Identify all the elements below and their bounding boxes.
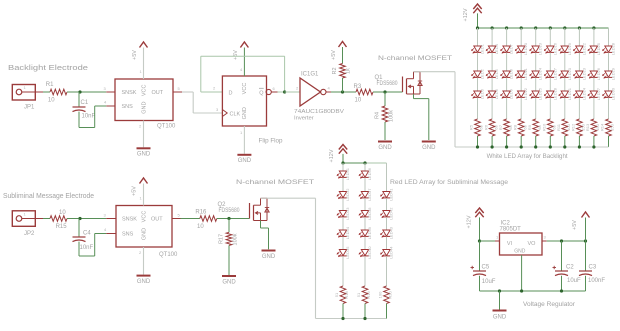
node junction: [534, 26, 537, 29]
wire: [386, 163, 388, 192]
svg-text:10uF: 10uF: [567, 278, 581, 284]
node junction: [592, 26, 595, 29]
wire: [342, 198, 344, 210]
LED LED21: [559, 87, 572, 100]
wire: [578, 28, 580, 46]
wire: [364, 198, 366, 210]
svg-text:10nF: 10nF: [82, 114, 96, 120]
svg-text:LED12: LED12: [523, 87, 528, 100]
svg-text:LED44: LED44: [389, 246, 394, 259]
svg-text:CLK: CLK: [230, 111, 241, 117]
svg-text:LED22: LED22: [581, 42, 586, 55]
svg-text:GND: GND: [238, 158, 252, 164]
pin 3 VO stub: [542, 235, 547, 242]
wire: [79, 106, 106, 128]
pin 5 OUT stub: [173, 86, 182, 92]
power +12V: [329, 145, 347, 163]
svg-text:QT100: QT100: [159, 252, 178, 258]
svg-text:GND: GND: [137, 279, 151, 285]
wire: [491, 136, 493, 147]
svg-text:FDS5680: FDS5680: [219, 208, 241, 214]
power +5V: [331, 42, 347, 60]
svg-text:VO: VO: [528, 241, 537, 247]
wire bottom rail: [480, 290, 586, 292]
resistor R9: [527, 119, 542, 136]
wire: [520, 78, 522, 91]
wire: [578, 78, 580, 91]
LED LED10: [515, 42, 528, 55]
ground: [493, 311, 507, 321]
wire: [477, 28, 479, 46]
label Voltage Regulator: [523, 301, 576, 308]
ground: [237, 155, 251, 164]
LED LED5: [486, 68, 499, 79]
wire: [593, 136, 595, 147]
svg-text:R9: R9: [527, 124, 532, 130]
LED LED32: [337, 188, 350, 201]
LED LED12: [515, 87, 528, 100]
svg-text:LED19: LED19: [567, 42, 572, 55]
IC2 7805DT regulator: [500, 221, 543, 256]
node junction: [78, 217, 81, 220]
svg-text:R19: R19: [366, 291, 371, 299]
wire: [477, 78, 479, 91]
node junction: [520, 289, 523, 292]
svg-text:+12V: +12V: [329, 149, 335, 162]
svg-text:10: 10: [48, 98, 55, 104]
node junction: [563, 145, 566, 148]
wire: [217, 218, 250, 220]
wire: [499, 291, 501, 310]
svg-text:LED2: LED2: [480, 68, 485, 79]
svg-text:LED8: LED8: [509, 68, 514, 79]
LED LED14: [530, 67, 543, 80]
svg-text:R3: R3: [354, 84, 362, 90]
capacitor C1: [73, 92, 96, 120]
resistor R14: [600, 119, 615, 136]
wire: [608, 78, 610, 91]
wire bottom rail: [343, 318, 387, 320]
LED LED16: [544, 42, 557, 55]
LED LED19: [559, 42, 572, 55]
svg-text:R17: R17: [219, 234, 225, 244]
svg-text:IC1G1: IC1G1: [301, 72, 319, 78]
svg-text:QT100: QT100: [157, 124, 176, 130]
wire: [564, 98, 566, 119]
wire: [342, 237, 344, 250]
wire: [535, 78, 537, 91]
wire: [477, 53, 479, 71]
svg-text:LED32: LED32: [345, 188, 350, 201]
svg-text:LED41: LED41: [389, 188, 394, 201]
svg-text:+5V: +5V: [331, 50, 337, 60]
node junction: [476, 145, 479, 148]
node junction: [560, 239, 563, 242]
svg-text:10: 10: [59, 210, 66, 216]
LED LED37: [359, 188, 372, 201]
svg-text:GND: GND: [242, 107, 248, 119]
LED LED24: [574, 87, 587, 100]
svg-text:SNSK: SNSK: [122, 217, 137, 223]
node junction: [578, 145, 581, 148]
label White LED Array for Backlight: [487, 153, 568, 160]
wire: [240, 48, 244, 77]
power +5V: [132, 178, 148, 196]
IC flip flop: [216, 76, 283, 145]
node junction: [78, 90, 81, 93]
svg-text:R16: R16: [195, 210, 207, 216]
resistor R5: [469, 119, 484, 136]
power +5V: [132, 42, 148, 60]
wire: [182, 92, 222, 113]
wire: [535, 98, 537, 119]
capacitor C5: [471, 241, 496, 291]
wire top rail: [343, 162, 387, 164]
wire: [342, 78, 344, 92]
power +5V: [572, 212, 590, 230]
capacitor C4: [73, 219, 94, 252]
svg-text:10: 10: [355, 98, 362, 104]
ground: [222, 276, 236, 286]
wire: [593, 53, 595, 71]
svg-text:LED27: LED27: [596, 87, 601, 100]
transistor Q2: [218, 198, 270, 220]
svg-text:D: D: [229, 90, 233, 96]
LED LED17: [544, 67, 557, 80]
svg-text:LED4: LED4: [494, 43, 499, 54]
wire: [140, 48, 144, 80]
transistor Q1: [375, 72, 423, 94]
svg-text:LED7: LED7: [509, 43, 514, 54]
LED LED27: [588, 87, 601, 100]
svg-text:+5V: +5V: [233, 50, 239, 60]
node junction: [341, 90, 344, 93]
svg-text:LED14: LED14: [538, 67, 543, 80]
wire: [585, 218, 587, 242]
wire: [364, 163, 366, 171]
node junction: [478, 239, 481, 242]
svg-text:GND: GND: [514, 249, 526, 255]
svg-text:74AUC1G80DBV: 74AUC1G80DBV: [294, 109, 344, 115]
svg-text:100: 100: [378, 291, 383, 298]
node junction: [592, 145, 595, 148]
svg-text:Voltage Regulator: Voltage Regulator: [523, 301, 576, 308]
LED LED13: [530, 42, 543, 55]
svg-text:GND: GND: [142, 102, 148, 114]
wire: [549, 78, 551, 91]
pin 3 SNSK stub: [104, 86, 116, 92]
wire: [535, 53, 537, 71]
wire: [520, 98, 522, 119]
wire: [549, 98, 551, 119]
LED LED30: [603, 87, 616, 100]
wire: [140, 184, 144, 206]
node junction: [578, 26, 581, 29]
wire: [477, 13, 479, 28]
wire: [578, 136, 580, 147]
pin 4 SNS stub: [104, 227, 116, 234]
node junction: [560, 289, 563, 292]
wire: [549, 28, 551, 46]
svg-text:7805DT: 7805DT: [500, 227, 522, 233]
resistor R10: [542, 119, 557, 136]
svg-text:R15: R15: [56, 224, 68, 230]
resistor R8: [512, 119, 527, 136]
svg-text:LED26: LED26: [596, 67, 601, 80]
IC QT100 #1: [115, 79, 176, 130]
wire: [181, 218, 200, 220]
svg-text:LED23: LED23: [581, 67, 586, 80]
svg-text:LED20: LED20: [567, 67, 572, 80]
wire: [608, 28, 610, 46]
wire: [491, 53, 493, 71]
svg-text:FDS5680: FDS5680: [377, 81, 399, 87]
IC QT100 #2: [116, 206, 178, 259]
svg-text:LED5: LED5: [494, 68, 499, 79]
wire: [364, 178, 366, 192]
wire: [386, 237, 388, 250]
wire: [477, 98, 479, 119]
LED LED31: [337, 167, 350, 180]
resistor R7: [498, 119, 513, 136]
svg-text:100k: 100k: [389, 110, 395, 122]
svg-text:R4: R4: [375, 112, 381, 119]
LED LED20: [559, 67, 572, 80]
pin 3 SNSK stub: [104, 213, 117, 219]
LED LED1: [472, 43, 485, 54]
LED LED18: [544, 87, 557, 100]
svg-text:+5V: +5V: [572, 220, 578, 230]
wire: [79, 234, 106, 257]
svg-text:C4: C4: [83, 231, 91, 237]
svg-text:C5: C5: [482, 265, 490, 271]
wire: [520, 28, 522, 46]
svg-text:LED39: LED39: [367, 226, 372, 239]
wire: [139, 121, 144, 148]
node junction: [549, 26, 552, 29]
wire: [521, 255, 523, 291]
capacitor C2: [553, 241, 582, 291]
svg-text:SNS: SNS: [122, 232, 134, 238]
wire: [520, 136, 522, 147]
wire: [506, 78, 508, 91]
svg-text:JP2: JP2: [24, 231, 35, 237]
wire: [342, 304, 344, 319]
svg-text:100k: 100k: [233, 233, 239, 245]
wire: [564, 136, 566, 147]
wire: [240, 126, 244, 154]
svg-text:LED30: LED30: [611, 87, 616, 100]
wire: [43, 91, 50, 93]
LED LED42: [381, 207, 394, 220]
resistor R2: [332, 64, 352, 79]
resistor R3: [354, 84, 374, 104]
wire: [386, 256, 388, 286]
wire: [386, 304, 388, 319]
node junction: [520, 26, 523, 29]
svg-text:Q: Q: [259, 90, 264, 96]
svg-text:SNSK: SNSK: [122, 90, 137, 96]
wire top rail: [478, 27, 609, 29]
label Red LED Array for Subliminal Message: [390, 179, 508, 186]
wire: [593, 28, 595, 46]
node junction: [363, 317, 366, 320]
power +5V: [233, 42, 248, 60]
node junction: [549, 145, 552, 148]
capacitor C3: [579, 241, 605, 291]
wire: [480, 240, 496, 242]
svg-text:VI: VI: [507, 241, 513, 247]
wire: [608, 53, 610, 71]
wire: [608, 98, 610, 119]
wire: [491, 98, 493, 119]
connector JP1: [12, 85, 43, 111]
wire: [43, 218, 50, 220]
svg-text:JP1: JP1: [24, 105, 35, 111]
wire: [342, 256, 344, 286]
svg-text:LED37: LED37: [367, 188, 372, 201]
LED LED34: [337, 226, 350, 239]
LED LED22: [574, 42, 587, 55]
svg-text:GND: GND: [422, 145, 436, 151]
LED LED11: [515, 67, 528, 80]
svg-text:10: 10: [197, 224, 204, 230]
svg-text:IC2: IC2: [501, 221, 511, 227]
wire: [364, 237, 366, 250]
wire: [506, 136, 508, 147]
wire: [342, 178, 344, 192]
svg-text:LED10: LED10: [523, 42, 528, 55]
resistor R6: [483, 119, 498, 136]
wire: [364, 217, 366, 230]
svg-text:R10: R10: [542, 123, 547, 131]
connector JP2: [12, 211, 43, 237]
label Subliminal Message Electrode: [3, 193, 94, 200]
svg-text:+5V: +5V: [132, 50, 138, 60]
wire drain net: [414, 72, 478, 147]
svg-text:LED28: LED28: [611, 42, 616, 55]
LED LED4: [486, 43, 499, 54]
LED LED44: [381, 246, 394, 259]
node junction: [491, 145, 494, 148]
svg-text:R14: R14: [600, 123, 605, 131]
power +12V: [467, 208, 484, 229]
svg-text:LED33: LED33: [345, 207, 350, 220]
wire: [506, 98, 508, 119]
svg-text:R12: R12: [571, 123, 576, 131]
op-amp IC1G1 inverter: [294, 72, 344, 122]
svg-text:OUT: OUT: [151, 217, 163, 223]
LED LED36: [359, 167, 372, 180]
svg-text:White LED Array for Backlight: White LED Array for Backlight: [487, 153, 568, 160]
svg-text:C2: C2: [566, 265, 574, 271]
wire: [491, 78, 493, 91]
node junction: [227, 217, 230, 220]
wire: [549, 136, 551, 147]
svg-text:LED38: LED38: [367, 207, 372, 220]
wire: [535, 136, 537, 147]
svg-text:R11: R11: [556, 123, 561, 131]
node junction: [534, 145, 537, 148]
wire: [364, 304, 366, 319]
wire: [608, 136, 610, 147]
wire: [578, 98, 580, 119]
svg-text:R2: R2: [332, 67, 338, 74]
svg-text:VCC: VCC: [142, 84, 148, 96]
resistor R18: [334, 286, 349, 304]
wire: [386, 217, 388, 230]
node junction: [491, 26, 494, 29]
ground: [422, 142, 436, 151]
wire: [477, 136, 479, 147]
wire feedback: [201, 56, 285, 92]
pin 1 VI stub: [495, 235, 500, 242]
svg-text:GND: GND: [137, 152, 151, 158]
svg-text:51: 51: [334, 292, 339, 297]
svg-text:LED43: LED43: [389, 226, 394, 239]
LED LED26: [588, 67, 601, 80]
svg-text:Subliminal Message Electrode: Subliminal Message Electrode: [3, 193, 94, 200]
label N-channel MOSFET: [378, 55, 452, 62]
LED LED41: [381, 188, 394, 201]
LED LED6: [486, 88, 499, 99]
LED LED3: [472, 88, 485, 99]
svg-text:LED34: LED34: [345, 226, 350, 239]
svg-text:R1: R1: [46, 82, 54, 88]
LED LED39: [359, 226, 372, 239]
wire: [201, 86, 223, 93]
svg-text:C3: C3: [589, 265, 597, 271]
svg-text:LED25: LED25: [596, 42, 601, 55]
LED LED7: [501, 43, 514, 54]
wire: [520, 53, 522, 71]
svg-text:LED36: LED36: [367, 167, 372, 180]
resistor R1: [46, 82, 67, 104]
wire: [549, 53, 551, 71]
wire: [535, 28, 537, 46]
svg-text:LED16: LED16: [552, 42, 557, 55]
svg-text:GND: GND: [493, 315, 507, 321]
svg-text:100nF: 100nF: [588, 278, 605, 284]
pin 4 SNS stub: [104, 100, 115, 107]
ground: [137, 276, 151, 285]
svg-text:10nF: 10nF: [80, 245, 94, 251]
wire: [386, 198, 388, 210]
wire: [139, 247, 144, 275]
LED LED9: [501, 88, 514, 99]
svg-text:LED1: LED1: [480, 43, 485, 54]
svg-text:LED35: LED35: [345, 246, 350, 259]
wire: [373, 91, 403, 93]
svg-text:Flip Flop: Flip Flop: [259, 139, 284, 145]
svg-text:N-channel MOSFET: N-channel MOSFET: [236, 179, 314, 186]
node junction: [341, 161, 344, 164]
node junction: [383, 90, 386, 93]
wire: [342, 217, 344, 230]
svg-text:R18: R18: [344, 291, 349, 299]
wire: [564, 53, 566, 71]
LED LED28: [603, 42, 616, 55]
wire bottom rail: [478, 146, 609, 148]
LED LED29: [603, 67, 616, 80]
LED LED23: [574, 67, 587, 80]
LED LED35: [337, 246, 350, 259]
wire: [261, 221, 269, 250]
node junction: [584, 239, 587, 242]
svg-text:LED40: LED40: [367, 246, 372, 259]
svg-text:GND: GND: [222, 280, 236, 286]
svg-text:LED42: LED42: [389, 207, 394, 220]
